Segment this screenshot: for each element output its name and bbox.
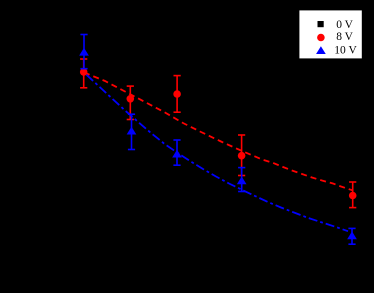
- red data point 4: [238, 152, 246, 160]
- legend marker: red circle 8 V: [317, 34, 325, 42]
- red data point 5: [349, 192, 357, 200]
- red error bar 3: [174, 76, 181, 113]
- red error bar 4: [238, 135, 245, 176]
- red error bar 2: [127, 86, 134, 119]
- blue data point 1: [79, 48, 89, 56]
- red error bar 5: [349, 182, 356, 208]
- blue data point 4: [237, 177, 247, 185]
- red data point 3: [173, 90, 181, 98]
- blue error bar 1: [80, 35, 87, 69]
- red data point 1: [80, 68, 88, 76]
- legend box: [299, 10, 361, 58]
- blue data point 3: [172, 150, 182, 158]
- legend marker: black square 0 V: [318, 21, 324, 27]
- blue error bar 4: [238, 168, 245, 192]
- legend marker: blue triangle 10 V: [316, 46, 326, 54]
- blue error bar 5: [348, 228, 355, 244]
- blue data point 2: [127, 127, 137, 135]
- blue error bar 2: [128, 114, 135, 149]
- blue error bar 3: [173, 140, 180, 165]
- blue data point 5: [347, 231, 357, 239]
- svg-text:10 V: 10 V: [334, 45, 357, 57]
- svg-text:8 V: 8 V: [336, 31, 353, 43]
- svg-text:0 V: 0 V: [336, 19, 353, 31]
- red data point 2: [127, 95, 135, 103]
- red fit curve (dashed), series 8 V: [84, 73, 353, 191]
- blue fit curve (dash-dot), series 10 V: [87, 75, 349, 231]
- red error bar 1: [80, 59, 87, 88]
